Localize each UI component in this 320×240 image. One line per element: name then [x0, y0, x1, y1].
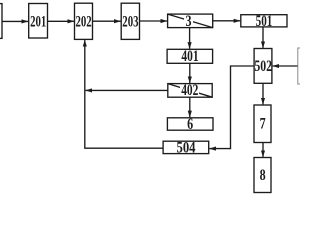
box 504 [163, 141, 209, 153]
svg-text:8: 8 [260, 168, 266, 185]
svg-text:201: 201 [30, 12, 46, 29]
svg-text:402: 402 [181, 82, 198, 99]
svg-text:501: 501 [256, 12, 273, 29]
svg-text:6: 6 [187, 117, 193, 134]
box 402 [168, 84, 212, 98]
wire: 502 left, down, into 504 right [209, 66, 254, 149]
svg-text:401: 401 [181, 47, 198, 64]
svg-text:502: 502 [254, 57, 272, 74]
partial box at right edge (cut off) [298, 48, 314, 84]
diagonal in box 3 [168, 14, 213, 28]
box 501 [241, 15, 287, 27]
box 203 [121, 3, 139, 39]
svg-text:3: 3 [185, 14, 191, 31]
partial box at left edge (input block, cut off) [0, 4, 2, 39]
wire: 504 left, riser up into 202 bottom [85, 40, 163, 148]
wire: right partial box to 502 [273, 65, 298, 67]
wire: 402 left into riser junction [86, 89, 168, 91]
svg-text:202: 202 [75, 12, 92, 29]
label 402 (with white backing over diagonal) [180, 82, 199, 99]
svg-text:504: 504 [176, 139, 195, 156]
wire: 3 down to 401 [189, 28, 191, 49]
svg-text:7: 7 [260, 116, 266, 133]
box 401 [167, 49, 213, 63]
wire: 7 down to 8 [262, 143, 264, 157]
wire: 501 down to 502 [262, 27, 264, 48]
diagonal in box 402 [168, 84, 212, 98]
wire: left partial box to 201 [2, 20, 28, 22]
box 202 [75, 3, 93, 39]
box 7 [254, 105, 271, 143]
box 3 [168, 14, 213, 28]
box 6 [167, 118, 213, 130]
box 502 [254, 49, 272, 84]
svg-text:203: 203 [122, 12, 139, 29]
wire: 201 to 202 [48, 20, 75, 22]
wire: 502 down to 7 [262, 83, 264, 104]
box 8 [254, 158, 271, 193]
wire: 401 down to 402 [189, 63, 191, 83]
wire: 203 to 3 [140, 20, 168, 22]
label 3 (with white backing over diagonal) [184, 14, 193, 31]
box 201 [29, 4, 48, 39]
wire: 3 to 501 [213, 20, 241, 22]
wire: 402 down to 6 [189, 97, 191, 117]
wire: 202 to 203 [93, 20, 121, 22]
